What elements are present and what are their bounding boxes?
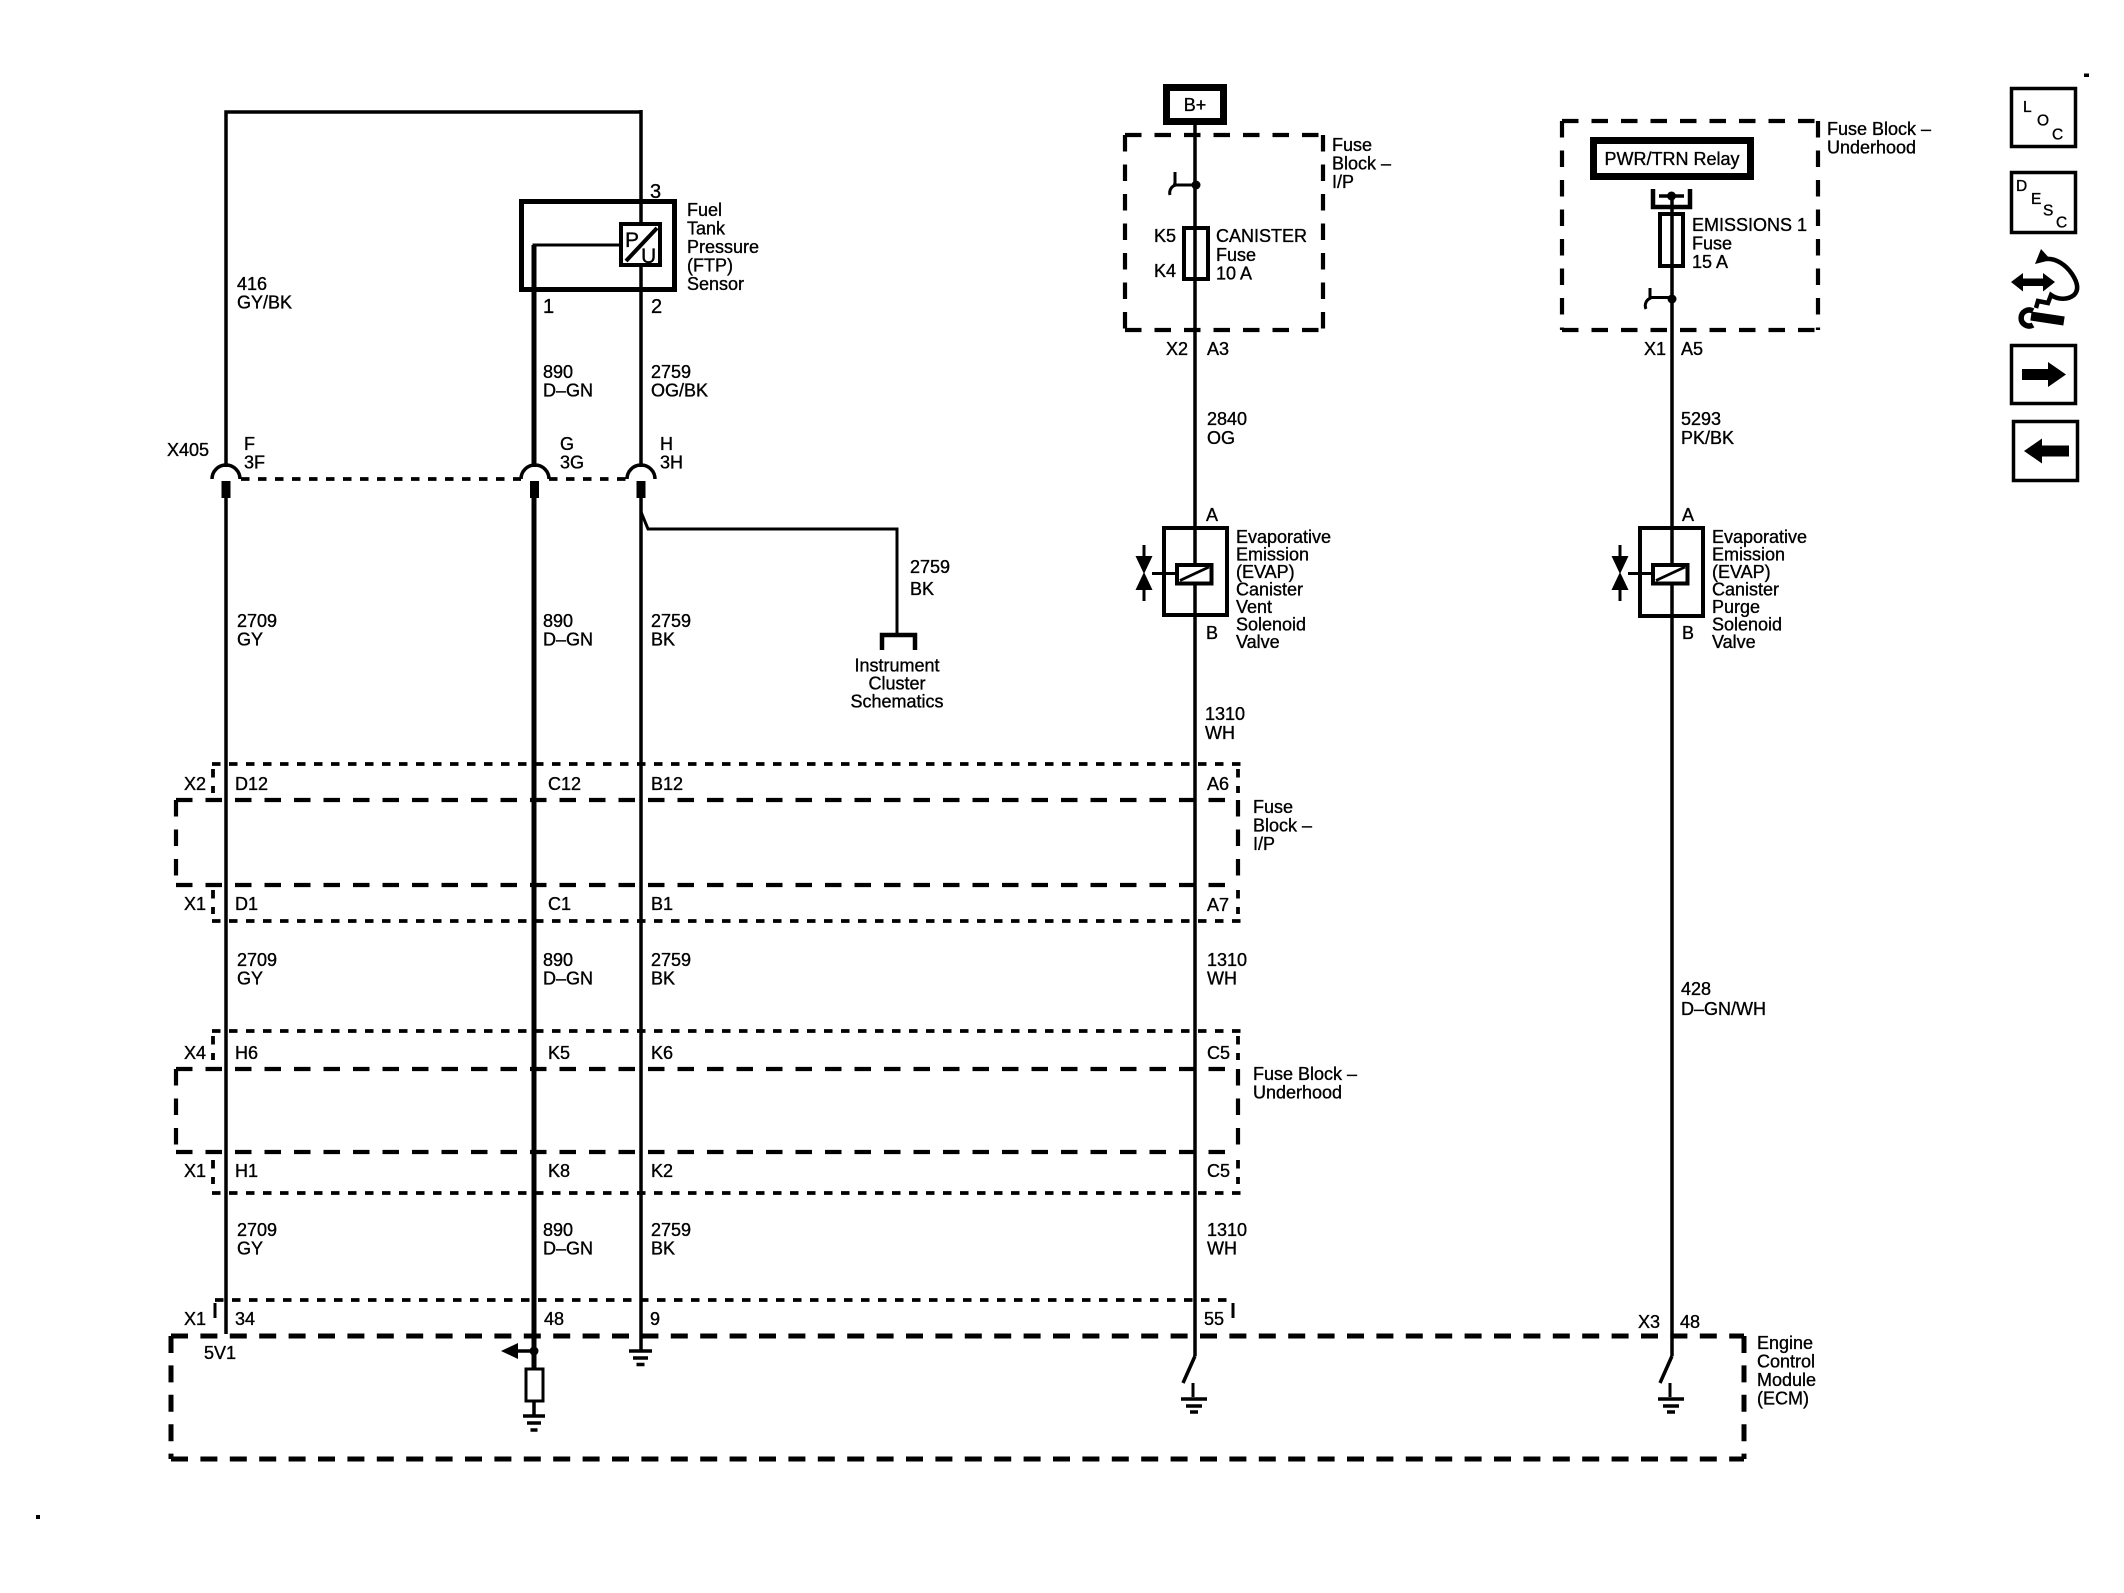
svg-text:A6: A6 bbox=[1207, 774, 1229, 794]
EVAP canister purge solenoid valve bbox=[1640, 528, 1703, 616]
ECM connector row dotted bbox=[215, 1298, 1233, 1302]
fuse block IP connector row X2 bbox=[212, 762, 1243, 766]
wire 890 D-GN pin 1 down bbox=[532, 245, 537, 467]
svg-text:55: 55 bbox=[1204, 1309, 1224, 1329]
stray mark bottom left bbox=[36, 1515, 40, 1519]
svg-text:C12: C12 bbox=[548, 774, 581, 794]
label EVAP canister vent solenoid valve bbox=[1236, 527, 1331, 652]
EVAP canister vent solenoid valve bbox=[1164, 528, 1227, 615]
svg-text:CANISTER: CANISTER bbox=[1216, 226, 1307, 246]
svg-text:K6: K6 bbox=[651, 1043, 673, 1063]
svg-text:U: U bbox=[641, 245, 656, 268]
relay output pin symbol bbox=[1653, 189, 1690, 207]
stray mark top right bbox=[2084, 74, 2089, 78]
svg-text:WH: WH bbox=[1205, 723, 1235, 743]
DESC icon box bbox=[2012, 173, 2076, 233]
LOC icon box bbox=[2012, 89, 2076, 147]
svg-text:2709: 2709 bbox=[237, 611, 277, 631]
svg-text:Fuel: Fuel bbox=[687, 200, 722, 220]
svg-text:GY: GY bbox=[237, 630, 263, 650]
resistor inside ECM bbox=[526, 1369, 543, 1401]
fuse block underhood dashed box bbox=[176, 1069, 1238, 1152]
svg-text:BK: BK bbox=[910, 579, 934, 599]
svg-text:X1: X1 bbox=[184, 894, 206, 914]
svg-text:Fuse Block –: Fuse Block – bbox=[1253, 1064, 1357, 1084]
svg-text:Control: Control bbox=[1757, 1352, 1815, 1372]
svg-text:L: L bbox=[2023, 99, 2032, 116]
svg-text:3H: 3H bbox=[660, 453, 683, 473]
wire pin 3 vertical into sensor bbox=[639, 110, 643, 467]
svg-text:D–GN: D–GN bbox=[543, 381, 593, 401]
fuse block IP connector row X1 bbox=[212, 919, 1243, 923]
svg-text:Module: Module bbox=[1757, 1370, 1816, 1390]
svg-text:(FTP): (FTP) bbox=[687, 256, 733, 276]
svg-text:(ECM): (ECM) bbox=[1757, 1389, 1809, 1409]
svg-text:A5: A5 bbox=[1681, 339, 1703, 359]
svg-text:5293: 5293 bbox=[1681, 409, 1721, 429]
svg-text:2759: 2759 bbox=[651, 1220, 691, 1240]
connector X405 F bbox=[212, 465, 240, 498]
svg-text:2759: 2759 bbox=[651, 950, 691, 970]
label EVAP canister purge solenoid valve bbox=[1712, 527, 1807, 652]
wire 890 D-GN vertical bbox=[532, 498, 537, 1370]
svg-text:Sensor: Sensor bbox=[687, 274, 744, 294]
ground pin 9 bbox=[629, 1351, 652, 1365]
fuse block underhood connector row X1 bbox=[212, 1191, 1243, 1195]
svg-text:Fuse Block –: Fuse Block – bbox=[1827, 119, 1931, 139]
fuse block underhood dashed box top bbox=[1562, 121, 1818, 330]
svg-text:P: P bbox=[625, 229, 639, 252]
svg-text:C1: C1 bbox=[548, 894, 571, 914]
svg-text:K5: K5 bbox=[1154, 226, 1176, 246]
svg-text:Schematics: Schematics bbox=[850, 692, 943, 712]
valve symbol vent bbox=[1136, 545, 1177, 601]
svg-text:Valve: Valve bbox=[1712, 632, 1756, 652]
svg-text:Underhood: Underhood bbox=[1253, 1083, 1342, 1103]
svg-text:Cluster: Cluster bbox=[868, 674, 925, 694]
svg-text:48: 48 bbox=[1680, 1312, 1700, 1332]
svg-text:A3: A3 bbox=[1207, 339, 1229, 359]
node 48 junction with 5V reference arrow bbox=[501, 1343, 539, 1359]
svg-text:1310: 1310 bbox=[1207, 950, 1247, 970]
svg-text:X1: X1 bbox=[184, 1161, 206, 1181]
wire branch 2759 BK to instrument cluster bbox=[641, 512, 897, 634]
svg-text:X1: X1 bbox=[1644, 339, 1666, 359]
svg-text:2: 2 bbox=[651, 296, 662, 318]
svg-text:9: 9 bbox=[650, 1309, 660, 1329]
valve symbol purge bbox=[1612, 545, 1653, 601]
svg-text:3G: 3G bbox=[560, 453, 584, 473]
fuse block IP dashed box bbox=[176, 800, 1238, 885]
svg-text:890: 890 bbox=[543, 611, 573, 631]
battery feed B+ box bbox=[1167, 88, 1224, 122]
svg-text:F: F bbox=[244, 434, 255, 454]
wire 1310 WH below vent valve bbox=[1193, 583, 1197, 1356]
svg-text:34: 34 bbox=[235, 1309, 255, 1329]
svg-text:416: 416 bbox=[237, 274, 267, 294]
svg-text:EMISSIONS 1: EMISSIONS 1 bbox=[1692, 215, 1807, 235]
svg-text:D–GN: D–GN bbox=[543, 630, 593, 650]
connector X405 H bbox=[627, 465, 655, 498]
svg-text:Fuse: Fuse bbox=[1216, 245, 1256, 265]
svg-text:C: C bbox=[2052, 127, 2063, 144]
ECM dashed box bbox=[171, 1336, 1744, 1459]
svg-text:H1: H1 bbox=[235, 1161, 258, 1181]
bus tap symbol on B+ feed bbox=[1170, 172, 1201, 195]
svg-text:Block –: Block – bbox=[1253, 816, 1312, 836]
wire 2759 BK vertical bbox=[639, 498, 643, 1350]
off-page connector instrument cluster bbox=[882, 635, 915, 650]
svg-text:Tank: Tank bbox=[687, 219, 726, 239]
svg-text:WH: WH bbox=[1207, 1239, 1237, 1259]
svg-text:X1: X1 bbox=[184, 1309, 206, 1329]
svg-text:D–GN: D–GN bbox=[543, 1239, 593, 1259]
svg-text:A7: A7 bbox=[1207, 895, 1229, 915]
svg-text:OG: OG bbox=[1207, 428, 1235, 448]
svg-text:D–GN/WH: D–GN/WH bbox=[1681, 999, 1766, 1019]
svg-text:D12: D12 bbox=[235, 774, 268, 794]
wire B+ down through canister fuse bbox=[1193, 125, 1197, 564]
transducer P/U symbol bbox=[621, 224, 660, 268]
svg-text:D1: D1 bbox=[235, 894, 258, 914]
wire 416 GY/BK loop from X405-F up and over to FTP sensor pin 3 bbox=[226, 112, 641, 467]
wire 428 D-GN/WH below purge valve bbox=[1670, 583, 1674, 1356]
svg-text:O: O bbox=[2037, 113, 2049, 130]
relay PWR/TRN box bbox=[1594, 141, 1751, 177]
svg-text:Block –: Block – bbox=[1332, 154, 1391, 174]
back arrow icon box bbox=[2014, 422, 2078, 481]
wire relay to fuse and down bbox=[1670, 196, 1674, 564]
svg-text:5V1: 5V1 bbox=[204, 1343, 236, 1363]
svg-text:B: B bbox=[1682, 623, 1694, 643]
navigation wiring icon bbox=[2011, 249, 2077, 326]
fuse block underhood connector row X4 bbox=[212, 1029, 1243, 1033]
svg-text:K2: K2 bbox=[651, 1161, 673, 1181]
svg-text:Valve: Valve bbox=[1236, 632, 1280, 652]
svg-text:2709: 2709 bbox=[237, 950, 277, 970]
wire below resistor bbox=[532, 1401, 536, 1415]
svg-text:I/P: I/P bbox=[1332, 172, 1354, 192]
svg-text:15 A: 15 A bbox=[1692, 252, 1728, 272]
svg-text:GY: GY bbox=[237, 1239, 263, 1259]
svg-text:S: S bbox=[2043, 203, 2053, 220]
svg-text:Fuse: Fuse bbox=[1692, 234, 1732, 254]
svg-text:OG/BK: OG/BK bbox=[651, 381, 708, 401]
svg-text:B+: B+ bbox=[1184, 95, 1207, 115]
svg-text:D–GN: D–GN bbox=[543, 969, 593, 989]
svg-text:B1: B1 bbox=[651, 894, 673, 914]
svg-text:K8: K8 bbox=[548, 1161, 570, 1181]
svg-text:GY/BK: GY/BK bbox=[237, 293, 292, 313]
svg-text:BK: BK bbox=[651, 1239, 675, 1259]
svg-text:K5: K5 bbox=[548, 1043, 570, 1063]
svg-text:K4: K4 bbox=[1154, 261, 1176, 281]
svg-text:890: 890 bbox=[543, 1220, 573, 1240]
svg-text:C5: C5 bbox=[1207, 1161, 1230, 1181]
svg-text:2759: 2759 bbox=[651, 611, 691, 631]
svg-text:1310: 1310 bbox=[1205, 704, 1245, 724]
fuse CANISTER 10A bbox=[1184, 228, 1208, 279]
svg-text:Instrument: Instrument bbox=[854, 656, 939, 676]
svg-text:D: D bbox=[2016, 178, 2027, 195]
svg-text:2840: 2840 bbox=[1207, 409, 1247, 429]
svg-text:Fuse: Fuse bbox=[1332, 135, 1372, 155]
svg-text:10 A: 10 A bbox=[1216, 264, 1252, 284]
sensor internal wire bbox=[534, 245, 621, 290]
switch to ground pin X3-48 bbox=[1658, 1356, 1684, 1412]
svg-text:PK/BK: PK/BK bbox=[1681, 428, 1734, 448]
connector X405 G bbox=[521, 465, 549, 498]
ground below resistor bbox=[523, 1416, 545, 1430]
svg-text:2759: 2759 bbox=[651, 362, 691, 382]
svg-text:I/P: I/P bbox=[1253, 834, 1275, 854]
svg-text:B: B bbox=[1206, 623, 1218, 643]
svg-text:890: 890 bbox=[543, 362, 573, 382]
X405 dashed row bbox=[241, 477, 521, 481]
svg-text:3F: 3F bbox=[244, 453, 265, 473]
svg-text:X2: X2 bbox=[1166, 339, 1188, 359]
bus tap symbol below fuse bbox=[1645, 288, 1676, 309]
svg-text:PWR/TRN Relay: PWR/TRN Relay bbox=[1604, 149, 1739, 169]
svg-text:Engine: Engine bbox=[1757, 1333, 1813, 1353]
forward arrow icon box bbox=[2012, 346, 2076, 404]
svg-text:H: H bbox=[660, 434, 673, 454]
svg-text:48: 48 bbox=[544, 1309, 564, 1329]
svg-text:Underhood: Underhood bbox=[1827, 138, 1916, 158]
svg-text:890: 890 bbox=[543, 950, 573, 970]
svg-text:X405: X405 bbox=[167, 440, 209, 460]
switch to ground pin 55 bbox=[1181, 1356, 1207, 1412]
svg-text:Pressure: Pressure bbox=[687, 237, 759, 257]
svg-text:A: A bbox=[1206, 505, 1218, 525]
svg-text:2759: 2759 bbox=[910, 557, 950, 577]
wire 2709 GY vertical bbox=[224, 498, 228, 1334]
svg-text:E: E bbox=[2031, 191, 2041, 208]
svg-text:428: 428 bbox=[1681, 979, 1711, 999]
svg-text:2709: 2709 bbox=[237, 1220, 277, 1240]
svg-text:X3: X3 bbox=[1638, 1312, 1660, 1332]
svg-text:X4: X4 bbox=[184, 1043, 206, 1063]
svg-text:1: 1 bbox=[543, 296, 554, 318]
svg-text:H6: H6 bbox=[235, 1043, 258, 1063]
fuse block IP dashed box top bbox=[1125, 135, 1323, 330]
svg-text:X2: X2 bbox=[184, 774, 206, 794]
svg-text:WH: WH bbox=[1207, 969, 1237, 989]
svg-text:1310: 1310 bbox=[1207, 1220, 1247, 1240]
svg-text:A: A bbox=[1682, 505, 1694, 525]
svg-text:C: C bbox=[2056, 215, 2067, 232]
svg-text:Fuse: Fuse bbox=[1253, 797, 1293, 817]
svg-text:GY: GY bbox=[237, 969, 263, 989]
svg-text:BK: BK bbox=[651, 630, 675, 650]
svg-text:B12: B12 bbox=[651, 774, 683, 794]
svg-text:G: G bbox=[560, 434, 574, 454]
svg-text:BK: BK bbox=[651, 969, 675, 989]
svg-text:C5: C5 bbox=[1207, 1043, 1230, 1063]
FTP sensor box bbox=[522, 202, 675, 290]
fuse EMISSIONS 1 15A bbox=[1660, 214, 1683, 266]
